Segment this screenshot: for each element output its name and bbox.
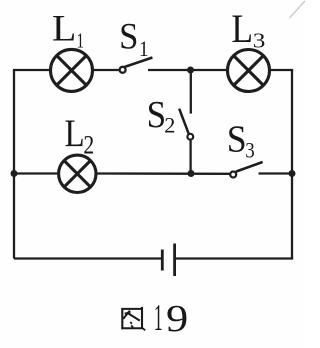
node: junction dot on left rail	[11, 170, 18, 177]
lamp L1	[51, 49, 93, 91]
svg-text:3: 3	[253, 30, 266, 54]
switch S2 pivot	[187, 134, 193, 140]
svg-text:S: S	[119, 15, 138, 56]
switch S3 blade	[236, 162, 263, 172]
wire: switch S1 to node A and on to lamp L3	[148, 69, 228, 71]
svg-text:1: 1	[139, 36, 149, 62]
wire: bottom rail right of battery	[175, 257, 294, 259]
svg-text:1: 1	[77, 29, 85, 52]
svg-text:S: S	[147, 93, 167, 136]
lamp L2	[59, 155, 96, 192]
node: junction dot on right rail	[289, 170, 296, 177]
battery positive plate (tall)	[173, 244, 176, 277]
wire: top rail, corner to lamp L1	[13, 69, 51, 71]
switch S1 blade	[125, 58, 153, 67]
caption hanzi "tu" (figure): outer box	[121, 307, 145, 330]
wire: switch S3 to right rail	[259, 172, 293, 174]
node A: junction dot on top rail	[187, 67, 194, 74]
svg-text:1: 1	[154, 298, 163, 339]
svg-text:S: S	[227, 118, 247, 160]
battery negative plate (short)	[161, 250, 164, 271]
lamp L3	[228, 50, 270, 92]
svg-text:9: 9	[166, 297, 188, 339]
switch S2 blade	[179, 109, 189, 135]
wire: lamp L2 to node B and on to switch S3	[96, 172, 230, 175]
svg-text:L: L	[52, 9, 76, 49]
svg-text:2: 2	[164, 113, 175, 138]
wire: S2 lower lead to node B	[189, 140, 191, 174]
node B: junction dot on middle rail	[188, 170, 195, 177]
wire: S2 upper lead from node A	[190, 70, 192, 114]
switch S3 pivot	[230, 172, 236, 178]
wire: left vertical rail	[13, 70, 15, 259]
svg-text:L: L	[65, 111, 85, 154]
caption hanzi "tu": inner strokes	[123, 311, 140, 328]
scratch mark (faint, top-right corner)	[290, 1, 306, 18]
wire: lamp L3 to top-right corner	[269, 69, 293, 71]
switch S1 pivot	[120, 67, 126, 73]
wire: lamp L1 to switch S1	[93, 69, 120, 71]
wire: middle rail, left rail to lamp L2	[14, 172, 59, 174]
svg-text:3: 3	[245, 139, 254, 162]
svg-text:2: 2	[83, 131, 94, 161]
svg-text:L: L	[231, 7, 253, 51]
wire: right vertical rail	[291, 70, 293, 259]
wire: bottom rail left of battery	[14, 257, 162, 259]
